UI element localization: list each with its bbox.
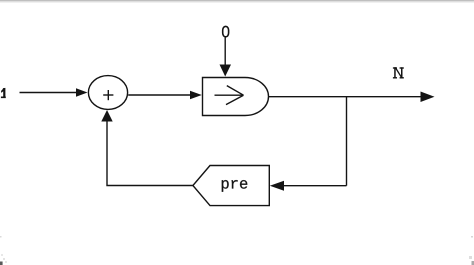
arrowhead output N [421, 92, 435, 103]
node output N [393, 67, 404, 78]
junction feedback tap [346, 97, 348, 186]
node constant 0 [223, 26, 229, 36]
wire block output to N [269, 96, 423, 98]
arrowhead into pre block right [270, 181, 284, 191]
followed-by arrow icon inside block [215, 86, 244, 105]
wire feedback to pre block [284, 185, 347, 187]
arrowhead down into block top [220, 65, 232, 77]
pre label [222, 180, 248, 192]
wire input 1 to summator [20, 92, 78, 94]
arrowhead into followed-by block [190, 91, 202, 100]
pre operator block U2 [193, 166, 269, 206]
arrowhead up into summator bottom [101, 110, 112, 122]
summator plus sign [103, 90, 113, 100]
wire summator to followed-by block [128, 94, 190, 96]
summator S1 circle [88, 76, 127, 110]
followed-by operator block U1 [203, 78, 269, 116]
arrowhead into summator left [76, 88, 88, 97]
wire pre output to summator feedback [107, 121, 194, 186]
node input constant 1 [1, 88, 6, 98]
wire 0 down to followed-by block [224, 37, 226, 66]
